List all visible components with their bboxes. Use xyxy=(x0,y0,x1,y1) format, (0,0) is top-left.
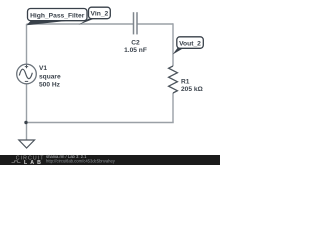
svg-text:C2: C2 xyxy=(131,40,140,47)
resistor R1 xyxy=(169,66,178,93)
svg-text:LAB: LAB xyxy=(24,160,44,165)
svg-text:http://circuitlab.com/c453dc5b: http://circuitlab.com/c453dc5bnvahey xyxy=(46,158,116,163)
svg-text:High_Pass_Filter: High_Pass_Filter xyxy=(30,12,85,19)
wire right vertical upper (corner to R1 top) xyxy=(172,23,174,66)
svg-text:Vin_2: Vin_2 xyxy=(91,11,109,18)
wire bottom segment (right corner to node B) xyxy=(27,122,174,124)
wire right vertical lower (R1 bottom to corner) xyxy=(172,93,174,123)
voltage source V1 xyxy=(17,64,37,84)
svg-text:Vout_2: Vout_2 xyxy=(179,40,201,47)
node flag Vout_2 xyxy=(173,37,204,55)
node flag Vin_2 xyxy=(79,7,111,25)
wire left vertical lower (V1 bottom to ground) xyxy=(26,84,28,140)
footer logo CIRCUIT LAB xyxy=(12,156,45,166)
svg-text:1.05 nF: 1.05 nF xyxy=(124,47,147,54)
svg-text:205 kΩ: 205 kΩ xyxy=(181,86,204,93)
wire top-left segment (node A to C2 left plate) xyxy=(27,23,134,25)
ground xyxy=(19,140,35,148)
capacitor C2 xyxy=(134,12,138,34)
wire top-right segment (C2 right plate to corner) xyxy=(137,23,173,25)
junction node B dot xyxy=(24,121,27,124)
wire left vertical upper (node A to V1 top) xyxy=(26,24,28,64)
svg-text:square: square xyxy=(39,73,61,80)
footer bar xyxy=(0,155,220,165)
svg-text:R1: R1 xyxy=(181,78,190,85)
node flag High_Pass_Filter xyxy=(27,9,88,26)
svg-text:V1: V1 xyxy=(39,65,47,72)
svg-text:500 Hz: 500 Hz xyxy=(39,82,61,89)
